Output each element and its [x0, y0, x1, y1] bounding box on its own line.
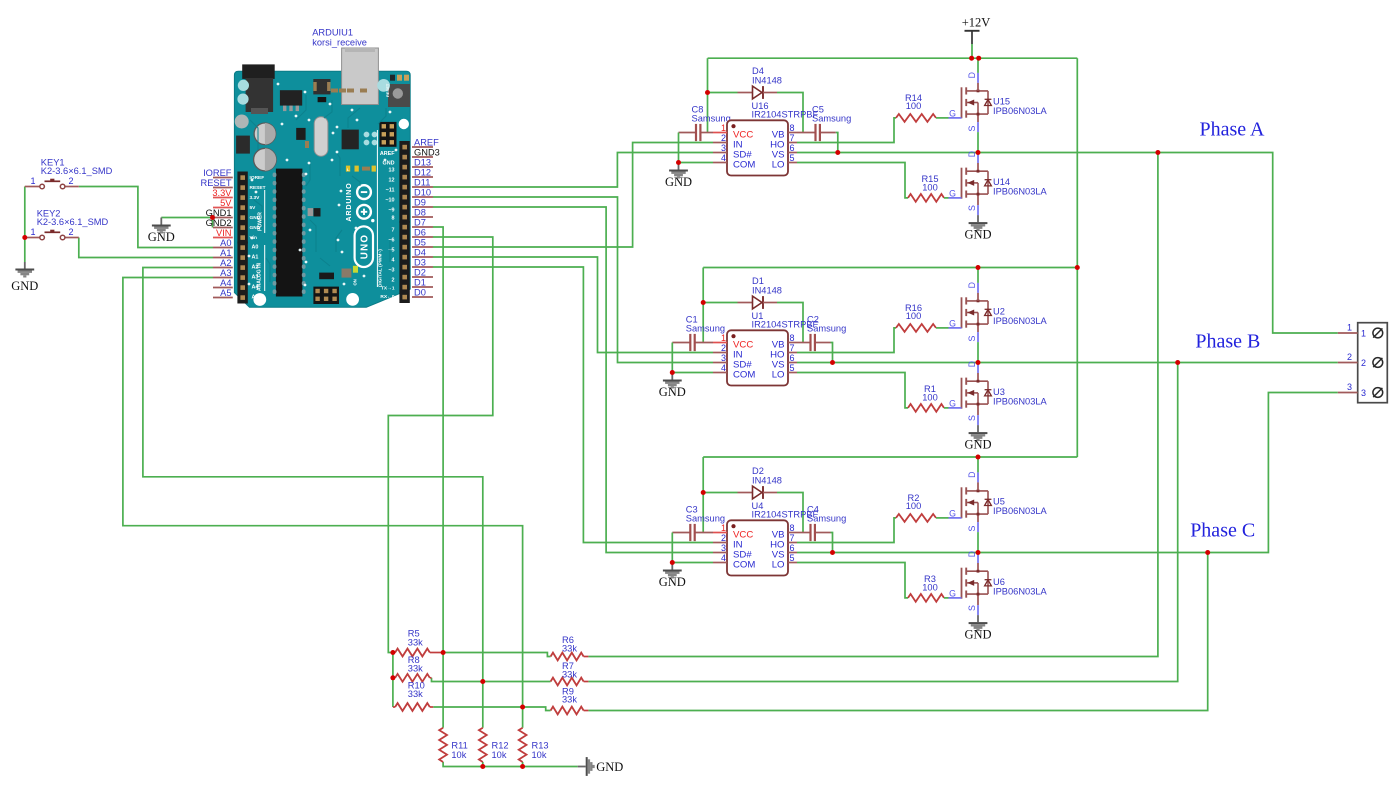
svg-text:G: G [949, 588, 956, 598]
wire +12V rail [708, 57, 1078, 59]
Arduino pin D7 [412, 226, 433, 228]
svg-text:GND: GND [964, 628, 991, 642]
svg-text:G: G [949, 108, 956, 118]
wire R9 riser to Phase C [588, 553, 1207, 711]
svg-text:8: 8 [392, 216, 395, 222]
Arduino pin D8 [412, 216, 433, 218]
wire Phase B net [978, 362, 1338, 364]
svg-text:G: G [949, 188, 956, 198]
svg-text:4: 4 [721, 553, 726, 563]
resistor R13 10k [519, 728, 527, 762]
pin stubs right [788, 532, 797, 534]
svg-text:7: 7 [790, 533, 795, 543]
wire VS row [797, 362, 978, 364]
svg-text:~11: ~11 [386, 188, 395, 194]
svg-text:8: 8 [790, 333, 795, 343]
svg-text:ARDUIU1: ARDUIU1 [312, 28, 353, 38]
Arduino pin D13 [412, 166, 433, 168]
svg-text:3.3V: 3.3V [212, 188, 232, 198]
svg-text:3: 3 [721, 353, 726, 363]
svg-text:5V: 5V [220, 198, 232, 208]
svg-text:+12V: +12V [962, 16, 991, 30]
svg-text:3: 3 [721, 143, 726, 153]
svg-text:100: 100 [922, 582, 938, 592]
transistor U14 lower MOSFET [961, 168, 963, 199]
svg-text:S: S [967, 605, 977, 611]
svg-text:GND: GND [659, 575, 686, 589]
svg-text:A5: A5 [220, 288, 231, 298]
svg-text:COM: COM [733, 560, 755, 571]
diode D2 IN4148 [703, 492, 737, 494]
wire R8-R7 row [432, 678, 551, 682]
svg-text:D: D [967, 72, 977, 78]
svg-text:Samsung: Samsung [807, 514, 846, 524]
svg-text:D0: D0 [414, 288, 426, 298]
Arduino pin D2 [412, 276, 433, 278]
Arduino pin A4 [213, 287, 233, 289]
svg-text:RX←0: RX←0 [380, 294, 394, 300]
svg-text:U2: U2 [993, 307, 1005, 317]
wire A2 to R12 column [143, 268, 483, 728]
svg-text:D9: D9 [414, 198, 426, 208]
wire COM pin4 [672, 562, 713, 564]
wire VS row [797, 552, 978, 554]
svg-text:D4: D4 [414, 248, 426, 258]
svg-text:AREF: AREF [414, 138, 439, 148]
switch KEY2 [25, 237, 40, 239]
resistor R9 33k [551, 707, 584, 715]
op-amp driver U U1 IR2104 body [727, 330, 788, 385]
wire divider left column [392, 653, 394, 708]
svg-text:~3: ~3 [388, 268, 394, 274]
wire D6 to divider node [388, 237, 493, 653]
svg-text:~5: ~5 [388, 248, 394, 254]
svg-text:D: D [967, 151, 977, 157]
svg-text:Samsung: Samsung [812, 114, 851, 124]
wire D10 to SD# U1 [433, 197, 713, 363]
svg-text:GND: GND [964, 438, 991, 452]
svg-text:A4: A4 [220, 278, 231, 288]
pin stubs left [713, 132, 727, 134]
svg-text:Phase C: Phase C [1190, 520, 1255, 542]
wire A3 to R13 column [123, 278, 523, 728]
wire KEY1 pin2 to A0 [79, 187, 213, 248]
svg-text:GND: GND [596, 760, 623, 774]
Arduino pin D12 [412, 176, 433, 178]
svg-text:12: 12 [389, 178, 395, 184]
svg-text:Samsung: Samsung [686, 514, 725, 524]
connector pin 1 [1338, 332, 1358, 334]
svg-text:4: 4 [721, 363, 726, 373]
wire R7 riser to Phase B [588, 363, 1177, 682]
svg-text:D2: D2 [752, 466, 764, 476]
Arduino pin D5 [412, 246, 433, 248]
svg-text:D13: D13 [414, 158, 431, 168]
svg-text:U14: U14 [993, 177, 1010, 187]
wire D9 to SD# U4 [433, 207, 713, 553]
wire KEY2 pin2 to A1 [79, 238, 213, 258]
svg-text:GND: GND [148, 230, 175, 244]
svg-text:D12: D12 [414, 168, 431, 178]
svg-text:8: 8 [790, 523, 795, 533]
svg-text:D2: D2 [414, 268, 426, 278]
transistor U2 upper MOSFET [961, 297, 963, 328]
diode D4 IN4148 [708, 92, 738, 94]
wire D7 to R11 column [433, 227, 443, 728]
pin stubs right [788, 342, 797, 344]
svg-text:IPB06N03LA: IPB06N03LA [993, 506, 1048, 516]
ground KEY [24, 262, 26, 269]
pin stubs left [713, 342, 727, 344]
svg-text:D10: D10 [414, 188, 431, 198]
svg-text:IPB06N03LA: IPB06N03LA [993, 587, 1048, 597]
Arduino pin D10 [412, 196, 433, 198]
Arduino pin A3 [213, 277, 233, 279]
svg-text:100: 100 [922, 392, 938, 402]
svg-text:2: 2 [1347, 352, 1352, 362]
svg-text:100: 100 [906, 101, 922, 111]
svg-text:13: 13 [389, 168, 395, 174]
svg-text:D3: D3 [414, 258, 426, 268]
svg-text:33k: 33k [408, 689, 423, 699]
svg-text:GND1: GND1 [206, 208, 232, 218]
svg-text:2: 2 [721, 133, 726, 143]
Arduino Uno board [234, 48, 410, 307]
Arduino pin A1 [213, 257, 233, 259]
resistor R2 100 upper gate [797, 518, 896, 543]
Arduino pin GND2 [213, 227, 233, 229]
svg-text:4: 4 [392, 258, 395, 264]
svg-text:R12: R12 [492, 741, 509, 751]
svg-text:D: D [967, 472, 977, 478]
Arduino pin D9 [412, 206, 433, 208]
svg-text:1: 1 [721, 333, 726, 343]
svg-text:GND: GND [11, 279, 38, 293]
capacitor C1 left [672, 342, 690, 344]
svg-text:LO: LO [772, 560, 785, 571]
svg-text:ANALOG IN: ANALOG IN [257, 263, 263, 291]
capacitor C8 left [679, 132, 697, 134]
svg-text:33k: 33k [562, 669, 577, 679]
resistor R6 33k [551, 653, 584, 661]
svg-text:U6: U6 [993, 577, 1005, 587]
wire D11 to SD# U16 [433, 153, 713, 188]
svg-text:33k: 33k [562, 643, 577, 653]
svg-text:D8: D8 [414, 208, 426, 218]
power +12V [965, 30, 980, 32]
Arduino pin 5V [213, 207, 233, 209]
svg-text:33k: 33k [408, 663, 423, 673]
svg-text:RESET: RESET [250, 185, 266, 191]
svg-text:6: 6 [790, 543, 795, 553]
svg-text:4: 4 [721, 153, 726, 163]
svg-text:D: D [967, 282, 977, 288]
capacitor C3 left [672, 532, 690, 534]
svg-text:POWER: POWER [258, 212, 264, 231]
svg-text:2: 2 [721, 343, 726, 353]
Arduino pin GND1 [213, 217, 233, 219]
svg-text:Samsung: Samsung [692, 114, 731, 124]
svg-text:GND: GND [659, 385, 686, 399]
resistor R15 100 lower gate [797, 163, 908, 198]
resistor R12 10k [479, 728, 487, 762]
Arduino pin IOREF [213, 177, 233, 179]
svg-text:Phase B: Phase B [1195, 331, 1260, 353]
wire GND1 to ground [161, 217, 213, 219]
svg-text:IOREF: IOREF [203, 168, 232, 178]
svg-text:10k: 10k [492, 750, 507, 760]
svg-text:D6: D6 [414, 228, 426, 238]
resistor R10 33k [395, 703, 430, 711]
wire D5 to IN U16 [433, 143, 713, 248]
svg-text:VIN: VIN [216, 228, 232, 238]
svg-text:AREF: AREF [380, 151, 395, 157]
svg-text:LO: LO [772, 370, 785, 381]
wire drain lead U15 [977, 58, 979, 73]
svg-text:R11: R11 [451, 741, 467, 751]
capacitor C5 bootstrap [797, 132, 816, 134]
Arduino pin A2 [213, 267, 233, 269]
resistor R16 100 upper gate [797, 328, 896, 353]
svg-text:D4: D4 [752, 66, 764, 76]
svg-text:S: S [967, 415, 977, 421]
wire Phase C net [978, 393, 1338, 553]
Arduino pin A5 [213, 297, 233, 299]
svg-text:2: 2 [1361, 358, 1366, 368]
svg-text:RESET: RESET [385, 83, 390, 97]
svg-text:2: 2 [721, 533, 726, 543]
svg-text:8: 8 [790, 123, 795, 133]
wire block2 VCC rail [703, 267, 1077, 269]
svg-text:1: 1 [1361, 329, 1366, 339]
wire bottom ground bus [443, 762, 578, 767]
wire VCC riser block2 [702, 268, 704, 343]
svg-text:DIGITAL (PWM~): DIGITAL (PWM~) [378, 249, 384, 287]
svg-text:D11: D11 [414, 178, 430, 188]
svg-text:G: G [949, 508, 956, 518]
svg-text:2: 2 [69, 176, 74, 186]
svg-text:S: S [967, 125, 977, 131]
Arduino pin AREF [412, 146, 433, 148]
wire D4 to IN U1 [433, 257, 713, 353]
svg-text:R13: R13 [532, 741, 549, 751]
svg-text:GND: GND [964, 228, 991, 242]
wire drain lead U2 [977, 268, 979, 283]
svg-text:5: 5 [790, 153, 795, 163]
svg-text:D5: D5 [414, 238, 426, 248]
transistor U5 upper MOSFET [961, 487, 963, 518]
svg-text:A0: A0 [252, 245, 259, 251]
svg-text:D1: D1 [414, 278, 426, 288]
wire Phase A net [978, 153, 1338, 334]
wire drain lead U5 [977, 457, 979, 472]
svg-text:korsi_receive: korsi_receive [312, 38, 367, 48]
svg-text:7: 7 [392, 228, 395, 234]
svg-text:1: 1 [721, 123, 726, 133]
switch KEY1 [25, 186, 40, 188]
wire VCC riser block3 [702, 457, 704, 533]
svg-text:D7: D7 [414, 218, 426, 228]
connector pin 3 [1338, 392, 1358, 394]
wire C3 to ground [671, 533, 673, 563]
svg-text:2: 2 [392, 278, 395, 284]
svg-text:S: S [967, 525, 977, 531]
diode D1 IN4148 [703, 302, 737, 304]
svg-text:~10: ~10 [385, 198, 394, 204]
svg-text:S: S [967, 335, 977, 341]
svg-text:A2: A2 [220, 258, 231, 268]
svg-text:LO: LO [772, 160, 785, 171]
svg-text:G: G [949, 398, 956, 408]
transistor U15 upper MOSFET [961, 87, 963, 118]
svg-text:3: 3 [1347, 382, 1352, 392]
svg-text:K2-3.6×6.1_SMD: K2-3.6×6.1_SMD [37, 217, 109, 227]
svg-text:U5: U5 [993, 497, 1005, 507]
capacitor C2 bootstrap [797, 342, 811, 344]
svg-text:IR2104STRPBF: IR2104STRPBF [752, 110, 819, 120]
op-amp driver U U4 IR2104 body [727, 520, 788, 575]
wire C1 to ground [671, 343, 673, 373]
wire C5 to VS [836, 133, 838, 153]
svg-text:U3: U3 [993, 387, 1005, 397]
svg-text:6: 6 [790, 353, 795, 363]
wire right rail vertical [1076, 58, 1078, 457]
svg-text:Phase A: Phase A [1200, 119, 1266, 141]
ground COM [671, 563, 673, 570]
Arduino pin D3 [412, 266, 433, 268]
svg-text:GND: GND [665, 175, 692, 189]
svg-text:G: G [949, 318, 956, 328]
svg-text:A0: A0 [220, 238, 231, 248]
transistor U6 lower MOSFET [961, 568, 963, 599]
svg-text:3: 3 [1361, 388, 1366, 398]
junction dots layer [705, 90, 710, 95]
svg-text:Samsung: Samsung [807, 324, 846, 334]
wire VCC riser block1 [707, 58, 709, 132]
svg-text:3: 3 [721, 543, 726, 553]
svg-text:GND2: GND2 [206, 218, 232, 228]
svg-text:33k: 33k [408, 637, 423, 647]
svg-text:ARDUINO: ARDUINO [344, 182, 353, 221]
wire block3 VCC rail [703, 456, 1077, 458]
svg-text:IPB06N03LA: IPB06N03LA [993, 316, 1048, 326]
svg-text:5: 5 [790, 553, 795, 563]
ground GND1 [160, 218, 162, 225]
svg-text:K2-3.6×6.1_SMD: K2-3.6×6.1_SMD [41, 166, 113, 176]
wire GND1-GND2 tie [212, 218, 214, 228]
svg-text:10k: 10k [532, 750, 547, 760]
wire COM pin4 [672, 372, 713, 374]
wire R6 riser to Phase A [588, 153, 1158, 657]
svg-text:A5: A5 [252, 295, 259, 301]
svg-text:100: 100 [906, 311, 922, 321]
svg-text:5V: 5V [250, 205, 257, 211]
svg-text:1: 1 [30, 227, 35, 237]
resistor R1 100 lower gate [797, 373, 908, 408]
ground COM [671, 373, 673, 380]
svg-text:IN4148: IN4148 [752, 76, 782, 86]
svg-text:ON: ON [353, 279, 358, 285]
svg-text:IPB06N03LA: IPB06N03LA [993, 397, 1048, 407]
svg-text:1: 1 [721, 523, 726, 533]
svg-text:1: 1 [1347, 323, 1352, 333]
svg-text:IPB06N03LA: IPB06N03LA [993, 106, 1048, 116]
Arduino pin GND3 [412, 156, 433, 158]
svg-text:RESET: RESET [201, 178, 232, 188]
Arduino pin D6 [412, 236, 433, 238]
svg-text:100: 100 [906, 501, 922, 511]
svg-text:~9: ~9 [388, 208, 394, 214]
connector pin 2 [1338, 362, 1358, 364]
pin stubs left [713, 532, 727, 534]
Arduino pin D11 [412, 186, 433, 188]
Arduino pin VIN [213, 237, 233, 239]
Arduino pin D0 [412, 296, 433, 298]
capacitor C4 bootstrap [797, 532, 811, 534]
resistor R11 10k [439, 728, 447, 762]
svg-text:IN4148: IN4148 [752, 476, 782, 486]
svg-text:D: D [967, 361, 977, 367]
ground bottom bus [578, 766, 586, 768]
wire VS row [797, 152, 978, 154]
Arduino pin D4 [412, 256, 433, 258]
wire D3 to IN U4 [433, 267, 713, 543]
wire R10-R9 row [433, 707, 550, 711]
Arduino pin RESET [213, 187, 233, 189]
resistor R8 33k [395, 674, 430, 682]
svg-text:5: 5 [790, 363, 795, 373]
svg-text:~6: ~6 [388, 238, 394, 244]
wire R5-R6 row [443, 653, 550, 657]
svg-text:GND3: GND3 [414, 148, 440, 158]
op-amp driver U U16 IR2104 body [727, 120, 788, 175]
svg-text:Samsung: Samsung [686, 324, 725, 334]
svg-text:D: D [967, 551, 977, 557]
svg-text:33k: 33k [562, 695, 577, 705]
svg-text:A3: A3 [220, 268, 231, 278]
svg-text:COM: COM [733, 160, 755, 171]
wire C8 to ground [678, 133, 680, 163]
svg-text:2: 2 [69, 227, 74, 237]
svg-text:A1: A1 [220, 248, 231, 258]
wire C4 to VS [831, 533, 833, 553]
wire COM pin4 [679, 162, 714, 164]
svg-text:1: 1 [30, 176, 35, 186]
svg-text:7: 7 [790, 343, 795, 353]
svg-text:COM: COM [733, 370, 755, 381]
svg-text:7: 7 [790, 133, 795, 143]
svg-text:S: S [967, 205, 977, 211]
svg-text:6: 6 [790, 143, 795, 153]
Arduino pin 3.3V [213, 197, 233, 199]
wire KEY1 pin1 to KEY2 pin1 to ground [24, 187, 26, 263]
svg-text:UNO: UNO [359, 234, 370, 259]
resistor R5 33k [395, 649, 430, 657]
wire C2 to VS [831, 343, 833, 363]
ground COM [678, 163, 680, 170]
svg-text:IN4148: IN4148 [752, 286, 782, 296]
Arduino pin D1 [412, 286, 433, 288]
resistor R14 100 upper gate [797, 118, 896, 143]
resistor R7 33k [551, 678, 584, 686]
svg-text:D1: D1 [752, 276, 764, 286]
svg-text:GND: GND [383, 161, 395, 167]
svg-text:A1: A1 [252, 255, 259, 261]
svg-text:IPB06N03LA: IPB06N03LA [993, 187, 1048, 197]
svg-text:100: 100 [922, 182, 938, 192]
svg-text:10k: 10k [451, 750, 466, 760]
transistor U3 lower MOSFET [961, 378, 963, 409]
